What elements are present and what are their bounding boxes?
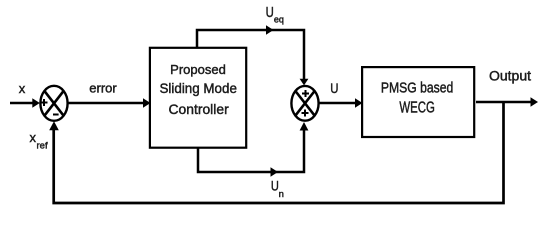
block U1: Proposed Sliding Mode Controller <box>150 48 246 148</box>
node x_ref label <box>30 130 48 151</box>
S1 plus sign <box>41 99 48 106</box>
svg-text:WECG: WECG <box>399 100 435 117</box>
summing junction S1 <box>40 86 67 121</box>
svg-text:Output: Output <box>489 68 531 84</box>
wire Un path: controller bottom to summer S2 bottom <box>198 128 304 172</box>
wire feedback: output branch down, across bottom, up into S1 <box>54 102 504 203</box>
wire error: S1 to controller <box>68 98 151 107</box>
svg-text:n: n <box>279 189 284 200</box>
svg-text:Controller: Controller <box>168 101 229 117</box>
wire Ueq path: controller top to summer S2 top <box>197 30 304 80</box>
summing junction S2 <box>291 86 318 121</box>
wire output arrow <box>476 97 538 106</box>
svg-text:U: U <box>266 4 274 21</box>
svg-text:x: x <box>30 130 37 145</box>
S2 plus sign bottom <box>302 110 309 117</box>
svg-text:PMSG based: PMSG based <box>381 80 454 97</box>
S2 plus sign top <box>302 90 309 97</box>
arrowhead Un into S2 bottom <box>300 122 309 131</box>
node U_n label <box>271 178 284 200</box>
svg-text:error: error <box>89 81 117 96</box>
arrowhead Ueq horizontal <box>266 25 274 34</box>
arrowhead Un horizontal <box>271 167 279 176</box>
svg-text:Proposed: Proposed <box>170 62 226 77</box>
svg-text:Sliding Mode: Sliding Mode <box>159 81 236 96</box>
node U_eq label <box>266 4 284 25</box>
arrowhead Ueq into S2 top <box>300 79 309 86</box>
svg-text:U: U <box>330 80 338 96</box>
svg-text:eq: eq <box>274 15 284 25</box>
svg-text:x: x <box>19 81 26 96</box>
S1 minus sign <box>53 114 59 116</box>
svg-text:ref: ref <box>37 140 48 151</box>
wire x input arrow into summer S1 <box>10 98 40 107</box>
arrowhead feedback into S1 bottom <box>49 121 59 130</box>
wire U: S2 to plant <box>319 98 363 107</box>
block U2: PMSG based WECG <box>362 67 474 137</box>
